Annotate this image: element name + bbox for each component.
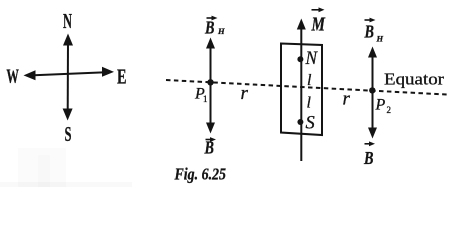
svg-text:r: r — [241, 83, 249, 104]
svg-text:B: B — [363, 148, 373, 168]
svg-text:B: B — [204, 138, 214, 158]
svg-text:l: l — [307, 72, 312, 89]
magnet pole dot S — [297, 119, 303, 125]
svg-text:N: N — [305, 49, 319, 69]
faint scan smudge bottom-left — [18, 148, 66, 187]
svg-text:N: N — [63, 9, 72, 33]
svg-text:Fig. 6.25: Fig. 6.25 — [174, 165, 226, 184]
point P1 dot — [207, 79, 213, 85]
magnet axis line with M arrow — [297, 19, 306, 162]
svg-text:H: H — [376, 34, 384, 44]
label B vector at P2 bottom — [363, 141, 375, 167]
compass rose vertical N-S arrow — [63, 34, 73, 121]
svg-text:M: M — [311, 14, 326, 36]
compass rose horizontal W-E arrow — [24, 67, 115, 81]
label BH vector at P1 top — [204, 16, 225, 38]
svg-text:H: H — [217, 26, 225, 36]
svg-text:l: l — [307, 95, 312, 112]
label M vector — [311, 7, 326, 35]
label B vector at P1 bottom — [204, 137, 216, 157]
svg-text:P: P — [375, 97, 386, 114]
point P1 vertical field line with arrows — [206, 38, 215, 134]
point P2 dot — [369, 87, 375, 93]
svg-text:S: S — [65, 122, 72, 146]
svg-text:r: r — [343, 89, 351, 110]
svg-text:B: B — [364, 22, 374, 42]
dashed equator line — [166, 80, 447, 95]
svg-text:E: E — [117, 65, 127, 89]
point P2 vertical field line with arrows — [368, 47, 377, 139]
svg-text:1: 1 — [203, 94, 208, 104]
bar magnet rectangle — [281, 44, 322, 136]
svg-text:S: S — [306, 114, 315, 134]
svg-text:Equator: Equator — [384, 69, 445, 88]
svg-text:2: 2 — [387, 105, 392, 115]
label BH vector at P2 top — [364, 18, 384, 44]
svg-text:W: W — [6, 66, 19, 88]
magnet pole dot N — [297, 56, 303, 62]
svg-text:B: B — [204, 18, 214, 38]
